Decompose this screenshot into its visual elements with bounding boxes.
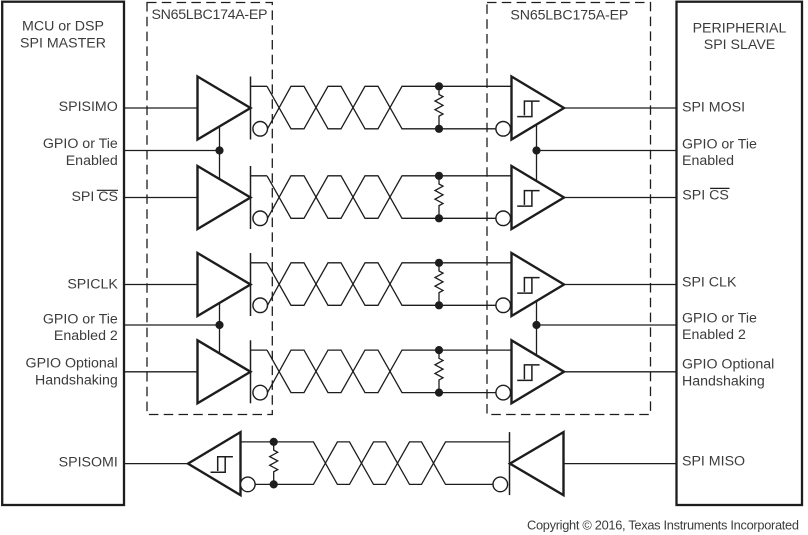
receiver U2C inverting input bubble: [496, 298, 511, 313]
node pair 4 bottom junction: [435, 389, 443, 397]
node pair 2 bottom junction: [435, 214, 443, 222]
wire driver 4 non-inverting output: [251, 349, 268, 351]
driver U1B: [198, 166, 251, 229]
overline CS (MCU): [97, 189, 118, 191]
node pair 5 bottom junction: [270, 480, 278, 488]
svg-text:GPIO or Tie: GPIO or Tie: [682, 310, 757, 326]
driver U1D: [198, 340, 251, 403]
node enable 2 receiver junction: [532, 321, 540, 329]
wire enable 1 receiver vertical: [536, 125, 538, 182]
driver U1C inverting bubble: [253, 298, 268, 313]
wire driver 1 non-inverting output: [251, 85, 268, 87]
svg-text:GPIO Optional: GPIO Optional: [26, 356, 118, 372]
receiver U2A inverting input bubble: [496, 122, 511, 137]
wire driver 2 non-inverting output: [251, 175, 268, 177]
node pair 1 bottom junction: [435, 125, 443, 133]
wire pair 4 bottom to receiver bubble: [439, 392, 496, 394]
wire driver 3 non-inverting output: [251, 262, 268, 264]
svg-text:SPI CS: SPI CS: [682, 188, 729, 204]
driver U1E inverting bubble: [493, 477, 508, 492]
twisted pair 1 conductor B: [268, 86, 440, 129]
wire enable 2 from MCU: [123, 324, 220, 326]
svg-text:Enabled 2: Enabled 2: [682, 327, 746, 343]
svg-text:PERIPHERIAL: PERIPHERIAL: [693, 21, 787, 37]
twisted pair 3 conductor B: [268, 263, 440, 306]
driver U1B inverting bubble: [253, 211, 268, 226]
svg-text:SPICLK: SPICLK: [67, 276, 118, 292]
svg-text:Copyright © 2016, Texas Instru: Copyright © 2016, Texas Instruments Inco…: [527, 518, 799, 533]
node enable 1 driver junction: [215, 146, 223, 154]
termination resistor RT3: [435, 263, 443, 306]
termination resistor RT1: [435, 86, 443, 129]
receiver U2B hysteresis symbol: [517, 191, 539, 207]
wire enable 1 from slave: [537, 150, 677, 152]
twisted pair 5 conductor B: [274, 442, 493, 485]
MCU master box: [2, 2, 124, 505]
wire receiver 4 output to slave: [564, 371, 677, 373]
receiver U2D: [512, 340, 565, 403]
svg-text:SPI MASTER: SPI MASTER: [20, 35, 106, 51]
svg-text:GPIO or Tie: GPIO or Tie: [682, 137, 757, 153]
twisted pair 5 conductor A: [274, 442, 510, 485]
driver U1A: [198, 77, 251, 140]
receiver U2A: [512, 77, 565, 140]
wire enable 2 driver vertical: [219, 303, 221, 354]
node pair 3 top junction: [435, 259, 443, 267]
svg-text:SPI MOSI: SPI MOSI: [682, 100, 745, 116]
wire enable 2 from slave: [537, 324, 677, 326]
twisted pair 1 conductor A: [267, 86, 439, 129]
termination resistor RT2: [435, 176, 443, 219]
driver U1D inverting bubble: [253, 385, 268, 400]
receiver U2C: [512, 253, 565, 316]
IC boundary SN65LBC174A-EP: [147, 3, 272, 415]
twisted pair 2 conductor A: [267, 176, 439, 219]
svg-text:SPI CS: SPI CS: [71, 189, 118, 205]
wire receiver 1 output to slave: [564, 107, 677, 109]
wire pair 1 bottom to receiver bubble: [439, 128, 496, 130]
receiver U2E inverting input bubble: [241, 477, 256, 492]
driver U1A output bar: [250, 77, 252, 140]
receiver U2C hysteresis symbol: [517, 278, 539, 294]
wire pair 2 bottom to receiver bubble: [439, 217, 496, 219]
termination resistor RT4: [435, 350, 443, 393]
receiver U2E: [188, 432, 241, 495]
wire channel 2 input from MCU: [123, 197, 198, 199]
node pair 5 top junction: [270, 438, 278, 446]
wire pair 3 bottom to receiver bubble: [439, 304, 496, 306]
driver U1D output bar: [250, 340, 252, 403]
twisted pair 4 conductor B: [268, 350, 440, 393]
svg-text:GPIO or Tie: GPIO or Tie: [43, 136, 118, 152]
wire pair 1 top to receiver: [439, 85, 512, 87]
receiver U2D inverting input bubble: [496, 385, 511, 400]
wire enable 2 receiver vertical: [536, 301, 538, 355]
node pair 3 bottom junction: [435, 301, 443, 309]
driver U1E output bar: [509, 432, 511, 495]
svg-text:SPISIMO: SPISIMO: [59, 99, 118, 115]
node pair 1 top junction: [435, 82, 443, 90]
svg-text:SPI MISO: SPI MISO: [682, 454, 745, 470]
svg-text:SN65LBC174A-EP: SN65LBC174A-EP: [152, 7, 268, 23]
peripheral slave box: [677, 2, 803, 505]
svg-text:SPISOMI: SPISOMI: [59, 455, 118, 471]
overline CS (slave): [710, 187, 729, 189]
wire pair 5 bottom from bubble: [255, 483, 274, 485]
receiver U2B: [512, 166, 565, 229]
svg-text:GPIO Optional: GPIO Optional: [682, 356, 774, 372]
node enable 2 driver junction: [215, 321, 223, 329]
driver U1C output bar: [250, 253, 252, 316]
wire SPI MISO input from slave: [564, 463, 677, 465]
wire channel 1 input from MCU: [123, 107, 198, 109]
wire pair 4 top to receiver: [439, 349, 512, 351]
wire pair 3 top to receiver: [439, 262, 512, 264]
wire receiver 3 output to slave: [564, 284, 677, 286]
driver U1B output bar: [250, 166, 252, 229]
termination resistor RT5: [270, 442, 278, 485]
IC boundary SN65LBC175A-EP: [487, 3, 651, 415]
svg-text:SN65LBC175A-EP: SN65LBC175A-EP: [510, 7, 628, 23]
wire enable 1 from MCU: [123, 150, 220, 152]
receiver U2B inverting input bubble: [496, 211, 511, 226]
receiver U2A hysteresis symbol: [517, 101, 539, 117]
wire enable 1 driver vertical: [219, 126, 221, 179]
svg-text:Handshaking: Handshaking: [35, 372, 118, 388]
wire receiver 2 output to slave: [564, 197, 677, 199]
wire pair 2 top to receiver: [439, 175, 512, 177]
svg-text:Handshaking: Handshaking: [682, 374, 765, 390]
driver U1C: [198, 253, 251, 316]
svg-text:SPI CLK: SPI CLK: [682, 274, 737, 290]
svg-text:Enabled 2: Enabled 2: [54, 328, 118, 344]
svg-text:SPI SLAVE: SPI SLAVE: [704, 37, 776, 53]
twisted pair 3 conductor A: [267, 263, 439, 306]
driver U1A inverting bubble: [253, 122, 268, 137]
svg-text:MCU or DSP: MCU or DSP: [22, 18, 104, 34]
node pair 2 top junction: [435, 172, 443, 180]
svg-text:GPIO or Tie: GPIO or Tie: [43, 311, 118, 327]
twisted pair 2 conductor B: [268, 176, 440, 219]
receiver U2D hysteresis symbol: [517, 365, 539, 381]
wire channel 4 input from MCU: [123, 371, 198, 373]
driver U1E: [510, 432, 564, 495]
receiver U2E hysteresis symbol: [211, 457, 233, 473]
svg-text:Enabled: Enabled: [66, 153, 118, 169]
node enable 1 receiver junction: [532, 146, 540, 154]
wire SPISOMI output to MCU: [123, 463, 188, 465]
node pair 4 top junction: [435, 346, 443, 354]
wire pair 5 top to receiver: [241, 441, 274, 443]
svg-text:Enabled: Enabled: [682, 153, 734, 169]
wire channel 3 input from MCU: [123, 284, 198, 286]
twisted pair 4 conductor A: [267, 350, 439, 393]
